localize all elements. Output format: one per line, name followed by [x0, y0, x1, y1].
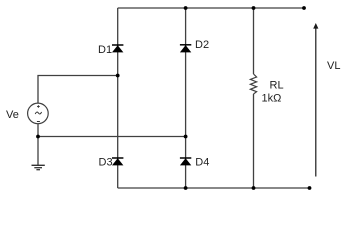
source plus mark: [37, 105, 40, 108]
label VL: [327, 60, 340, 72]
source minus mark: [37, 121, 40, 123]
wire: top rail: [118, 7, 304, 9]
svg-text:D1: D1: [98, 44, 112, 56]
svg-text:1kΩ: 1kΩ: [262, 93, 282, 105]
wire: left bridge column (D1/D3 branch): [117, 8, 119, 188]
junction dot: top rail / D2 column: [184, 6, 188, 10]
resistor RL zigzag: [250, 74, 256, 94]
label 1kOhm: [262, 93, 282, 105]
junction dot: lower AC wire / right column: [184, 135, 188, 139]
svg-text:D3: D3: [99, 157, 113, 169]
label D3: [99, 157, 113, 169]
junction dot: source bottom node: [36, 135, 40, 139]
junction dot: bottom rail / RL column: [252, 186, 256, 190]
label D4: [195, 157, 209, 169]
label RL: [270, 80, 284, 92]
AC source Ve circle: [28, 103, 49, 124]
svg-text:RL: RL: [270, 80, 284, 92]
junction dot: source lead / left column: [116, 74, 120, 78]
svg-text:D4: D4: [195, 157, 209, 169]
wire: bottom rail: [118, 187, 310, 189]
node: top rail right terminal: [302, 6, 306, 10]
diode D1: [112, 45, 123, 52]
label D1: [98, 44, 112, 56]
node: bottom rail right terminal: [308, 186, 312, 190]
svg-text:Ve: Ve: [6, 109, 19, 121]
wire: source bottom lead to ground: [37, 124, 39, 166]
svg-text:VL: VL: [327, 60, 340, 72]
junction dot: bottom rail / right column: [184, 186, 188, 190]
svg-text:D2: D2: [195, 39, 209, 51]
wire: source top lead: [38, 76, 118, 104]
diode D4: [180, 158, 191, 165]
diode D3: [112, 158, 123, 165]
source sine mark: [35, 112, 41, 114]
label Ve: [6, 109, 19, 121]
wire: lower AC wire to right column: [38, 136, 186, 138]
junction dot: top rail / RL column: [252, 6, 256, 10]
wire: RL branch: [253, 8, 255, 188]
wire: right bridge column (D2/D4 branch): [185, 8, 187, 188]
VL measurement arrow: [313, 23, 318, 177]
ground symbol: [32, 165, 45, 169]
label D2: [195, 39, 209, 51]
diode D2: [180, 45, 191, 53]
